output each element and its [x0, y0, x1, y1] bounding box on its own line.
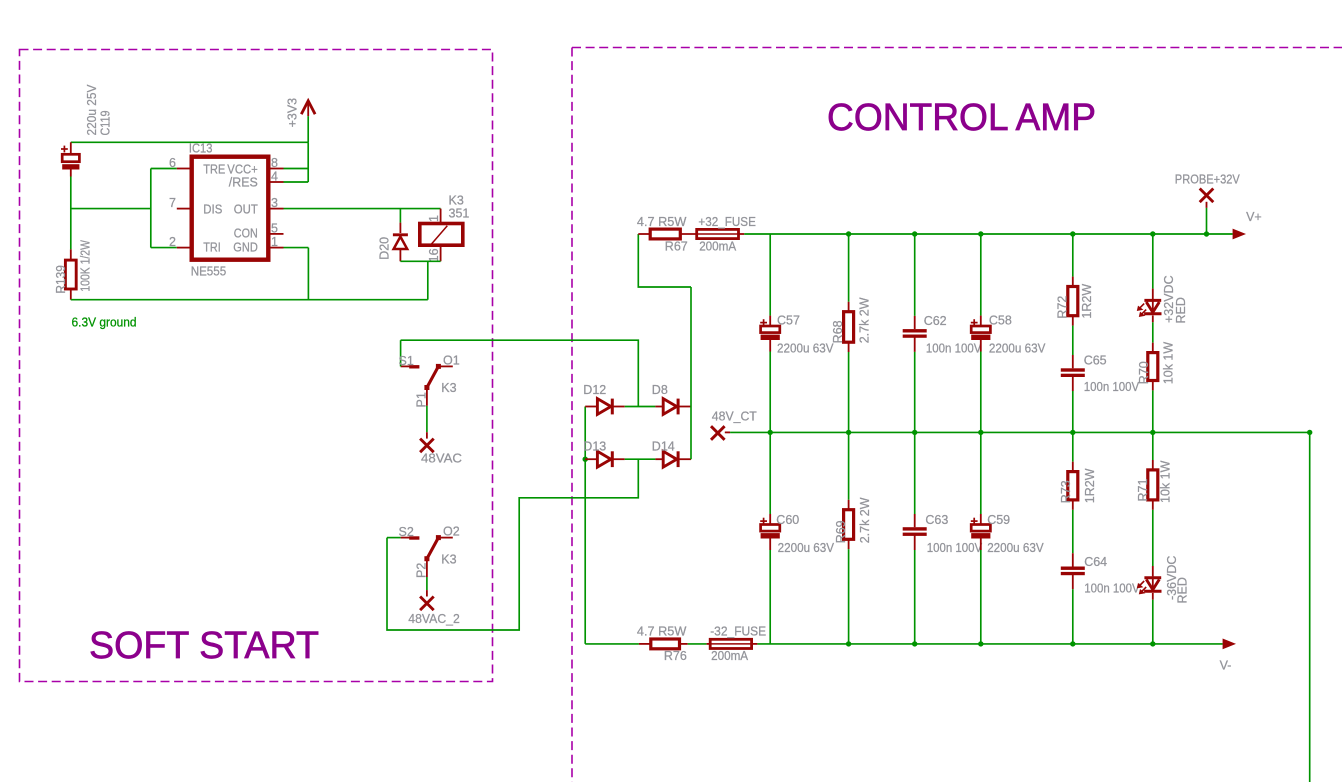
- svg-text:2200u 63V: 2200u 63V: [778, 541, 835, 555]
- svg-text:200mA: 200mA: [711, 649, 749, 663]
- svg-text:S2: S2: [399, 525, 414, 539]
- svg-text:V+: V+: [1246, 210, 1262, 224]
- svg-text:DIS: DIS: [203, 202, 222, 216]
- svg-text:1R2W: 1R2W: [1083, 468, 1097, 503]
- svg-text:100n 100V: 100n 100V: [926, 342, 982, 356]
- svg-text:3: 3: [271, 196, 278, 210]
- svg-text:6: 6: [169, 156, 176, 170]
- svg-text:R76: R76: [664, 649, 687, 663]
- svg-text:2200u 63V: 2200u 63V: [777, 342, 834, 356]
- svg-text:D8: D8: [652, 383, 668, 397]
- svg-text:4.7 R5W: 4.7 R5W: [637, 625, 687, 639]
- svg-text:100K 1/2W: 100K 1/2W: [79, 240, 93, 292]
- svg-text:C58: C58: [989, 314, 1012, 328]
- svg-text:RED: RED: [1174, 297, 1188, 323]
- svg-text:R71: R71: [1136, 479, 1150, 502]
- svg-text:C119: C119: [99, 110, 113, 135]
- svg-text:48V_CT: 48V_CT: [712, 410, 757, 424]
- svg-text:O2: O2: [443, 525, 460, 539]
- svg-text:CON: CON: [234, 226, 258, 240]
- svg-text:48VAC_2: 48VAC_2: [408, 612, 460, 626]
- svg-text:C59: C59: [987, 513, 1010, 527]
- svg-text:220u 25V: 220u 25V: [85, 84, 99, 136]
- svg-text:1: 1: [271, 235, 278, 249]
- svg-text:R139: R139: [54, 265, 68, 294]
- svg-text:8: 8: [271, 156, 278, 170]
- svg-text:K3: K3: [441, 381, 456, 395]
- svg-text:OUT: OUT: [234, 202, 258, 216]
- svg-text:IC13: IC13: [189, 141, 213, 155]
- svg-text:TRI: TRI: [203, 241, 221, 255]
- svg-text:5: 5: [271, 221, 278, 235]
- svg-text:D13: D13: [583, 439, 606, 453]
- svg-text:2200u 63V: 2200u 63V: [989, 342, 1046, 356]
- svg-text:O1: O1: [443, 354, 460, 368]
- svg-text:R72: R72: [1056, 296, 1070, 319]
- svg-text:R73: R73: [1059, 480, 1073, 503]
- svg-text:D20: D20: [377, 237, 391, 260]
- svg-text:2.7k 2W: 2.7k 2W: [858, 497, 872, 543]
- svg-text:P2: P2: [415, 563, 429, 578]
- svg-text:4: 4: [271, 170, 278, 184]
- svg-text:TRE: TRE: [203, 162, 225, 176]
- svg-text:PROBE+32V: PROBE+32V: [1175, 172, 1241, 186]
- svg-text:VCC+: VCC+: [227, 162, 258, 176]
- svg-text:4.7 R5W: 4.7 R5W: [637, 215, 687, 229]
- svg-text:2: 2: [169, 235, 176, 249]
- svg-text:K3: K3: [441, 552, 456, 566]
- svg-text:C63: C63: [925, 513, 948, 527]
- svg-text:R70: R70: [1137, 361, 1151, 384]
- svg-text:-32_FUSE: -32_FUSE: [710, 625, 766, 639]
- svg-text:K3: K3: [449, 193, 464, 207]
- svg-text:C64: C64: [1084, 555, 1107, 569]
- svg-text:S1: S1: [399, 354, 414, 368]
- svg-text:6.3V ground: 6.3V ground: [72, 316, 137, 330]
- svg-text:2200u 63V: 2200u 63V: [987, 541, 1044, 555]
- svg-text:GND: GND: [233, 241, 258, 255]
- svg-text:100n 100V: 100n 100V: [927, 541, 983, 555]
- svg-text:48VAC: 48VAC: [421, 452, 462, 466]
- svg-text:RED: RED: [1175, 577, 1189, 603]
- svg-text:+32_FUSE: +32_FUSE: [698, 215, 756, 229]
- svg-text:C62: C62: [924, 314, 947, 328]
- svg-text:D14: D14: [652, 439, 675, 453]
- svg-text:R68: R68: [831, 320, 845, 343]
- svg-text:351: 351: [449, 206, 470, 220]
- svg-text:P1: P1: [415, 392, 429, 407]
- svg-text:C60: C60: [776, 513, 799, 527]
- svg-text:10k 1W: 10k 1W: [1159, 460, 1173, 503]
- svg-text:C65: C65: [1084, 354, 1107, 368]
- svg-text:100n 100V: 100n 100V: [1084, 380, 1140, 394]
- svg-text:V-: V-: [1220, 659, 1232, 673]
- svg-text:2.7k 2W: 2.7k 2W: [857, 297, 871, 343]
- svg-text:1R2W: 1R2W: [1080, 284, 1094, 319]
- svg-text:+3V3: +3V3: [286, 98, 300, 128]
- svg-text:R69: R69: [834, 520, 848, 543]
- svg-text:16: 16: [427, 248, 441, 262]
- svg-text:100n 100V: 100n 100V: [1084, 582, 1140, 596]
- svg-text:1: 1: [427, 215, 441, 222]
- svg-text:NE555: NE555: [191, 265, 227, 279]
- svg-text:7: 7: [169, 196, 176, 210]
- svg-text:SOFT START: SOFT START: [89, 625, 319, 667]
- svg-text:200mA: 200mA: [699, 240, 737, 254]
- svg-text:C57: C57: [777, 314, 800, 328]
- svg-text:D12: D12: [583, 383, 606, 397]
- svg-text:10k 1W: 10k 1W: [1161, 342, 1175, 385]
- svg-text:R67: R67: [665, 240, 688, 254]
- svg-text:CONTROL AMP: CONTROL AMP: [827, 97, 1096, 139]
- svg-text:/RES: /RES: [229, 176, 258, 190]
